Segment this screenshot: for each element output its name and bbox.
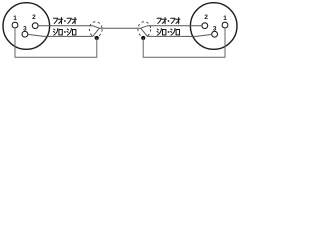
pin 3 (left connector)	[22, 31, 28, 37]
wire: hot conductor left (pin2 to cable junction)	[38, 26, 99, 29]
pin 1 (right connector)	[222, 22, 228, 28]
pin 2 (left connector)	[32, 23, 38, 29]
connector P2 shell (right XLR face)	[190, 3, 237, 50]
pin 1 (left connector)	[12, 22, 18, 28]
shield/ground wire right (junction dot down, along bottom, up to pin1)	[143, 28, 225, 57]
cable sheath boundary right (dashed ellipse)	[138, 22, 151, 37]
wire: cable center span	[99, 27, 140, 29]
shield junction dot right	[141, 36, 145, 40]
label シロ・シロ left (white-white wire label)	[53, 29, 76, 36]
pin 2 (right connector)	[202, 23, 208, 29]
wire: cold conductor right (cable junction to pin3)	[141, 28, 213, 36]
label アオ・アオ right (blue-blue wire label)	[157, 18, 180, 24]
label アオ・アオ left (blue-blue wire label)	[53, 18, 76, 24]
connector P1 shell (left XLR face)	[3, 3, 50, 50]
pin 3 (right connector)	[212, 31, 218, 37]
svg-text:1: 1	[13, 15, 17, 22]
shield junction dot left	[95, 36, 99, 40]
wire: cold conductor left (pin3 to cable junction)	[28, 28, 100, 36]
svg-text:2: 2	[32, 14, 36, 21]
wire: hot conductor right (cable junction to pin2)	[141, 26, 202, 29]
cable sheath boundary left (dashed ellipse)	[89, 22, 102, 37]
svg-text:3: 3	[23, 25, 27, 32]
svg-text:3: 3	[213, 25, 217, 32]
svg-text:2: 2	[204, 14, 208, 21]
label シロ・シロ right (white-white wire label)	[157, 29, 180, 36]
svg-text:1: 1	[223, 15, 227, 22]
shield/ground wire left (pin1 down, along bottom, up to junction dot)	[15, 28, 97, 57]
